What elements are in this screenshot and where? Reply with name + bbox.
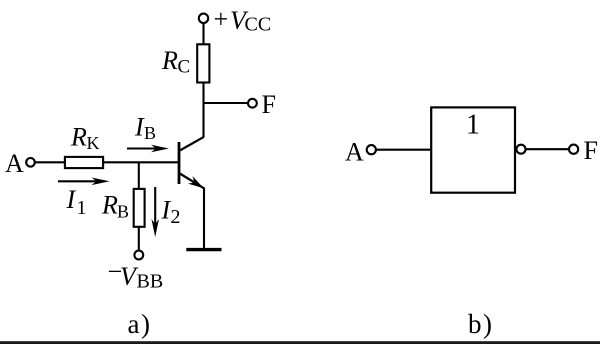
current arrow IB — [127, 145, 169, 153]
svg-text:K: K — [87, 133, 100, 153]
inversion bubble — [517, 145, 526, 154]
label RC — [161, 46, 190, 78]
wire RB to -VBB terminal — [138, 228, 140, 251]
resistor RK — [65, 157, 103, 168]
node F wire (circuit a) — [204, 102, 249, 104]
svg-text:B: B — [144, 123, 156, 143]
wire emitter down — [203, 188, 205, 250]
svg-text:C: C — [178, 57, 191, 78]
svg-text:1: 1 — [77, 197, 87, 219]
logic gate U1 box — [431, 107, 515, 192]
svg-text:b): b) — [468, 309, 494, 339]
svg-text:R: R — [101, 191, 118, 220]
bottom rule — [0, 341, 600, 344]
label RK — [70, 123, 100, 154]
svg-text:1: 1 — [466, 110, 480, 141]
svg-text:R: R — [70, 123, 87, 152]
svg-text:R: R — [161, 46, 178, 75]
transistor Q1 collector diagonal — [180, 137, 204, 151]
wire bubble to F terminal — [526, 148, 570, 150]
svg-text:a): a) — [128, 309, 152, 339]
label I2 — [161, 196, 181, 229]
terminal -VBB — [134, 251, 143, 260]
label I1 — [66, 185, 87, 219]
resistor RC — [197, 44, 209, 82]
terminal +VCC — [199, 14, 208, 23]
wire collector up — [202, 83, 204, 137]
transistor Q1 base bar — [178, 142, 181, 184]
svg-text:F: F — [584, 136, 598, 165]
label IB — [134, 113, 156, 144]
svg-text:F: F — [262, 90, 276, 119]
current arrow I1 — [58, 178, 110, 186]
transistor Q1 emitter diagonal — [180, 174, 204, 189]
svg-text:+: + — [214, 5, 229, 34]
wire A to gate box — [376, 149, 430, 151]
label -VBB — [108, 257, 164, 293]
svg-text:A: A — [5, 149, 24, 178]
svg-text:A: A — [345, 138, 364, 167]
svg-text:I: I — [66, 185, 77, 214]
wire junction down to RB — [138, 162, 140, 188]
terminal A (circuit b) — [367, 145, 376, 154]
wire RK to base — [104, 161, 179, 163]
wire A to RK — [35, 161, 64, 163]
terminal F (circuit b) — [569, 145, 578, 154]
ground — [186, 248, 221, 251]
terminal A (circuit a) — [26, 158, 35, 167]
svg-text:CC: CC — [245, 14, 272, 36]
svg-text:2: 2 — [171, 206, 181, 228]
svg-text:B: B — [117, 202, 129, 222]
resistor RB — [134, 189, 145, 227]
label RB — [101, 191, 129, 222]
wire RC to +VCC terminal — [202, 23, 204, 44]
label +VCC — [214, 5, 272, 36]
terminal F (circuit a) — [248, 99, 257, 108]
svg-text:BB: BB — [137, 271, 164, 293]
current arrow I2 — [151, 187, 159, 237]
transistor Q1 emitter arrow — [188, 176, 204, 188]
